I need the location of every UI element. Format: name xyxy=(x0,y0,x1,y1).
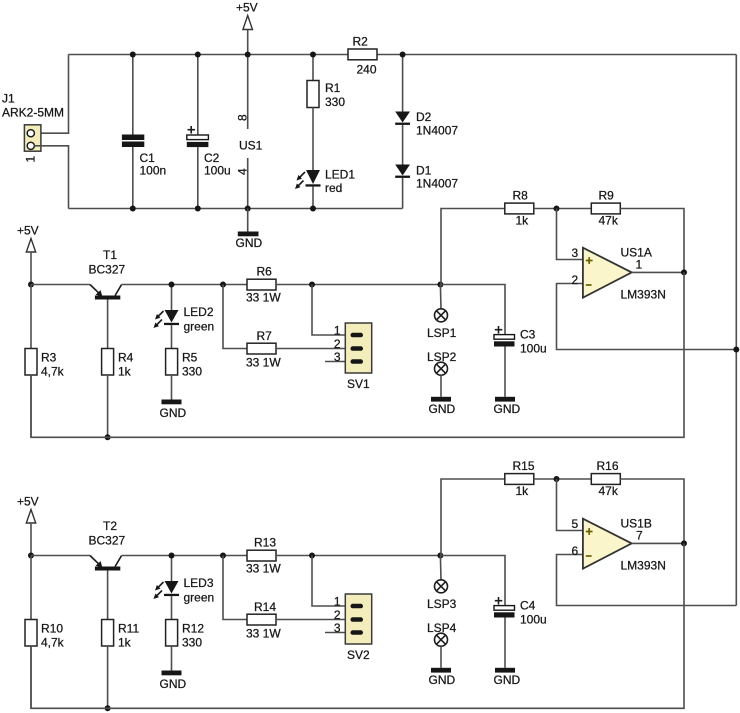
svg-text:J1: J1 xyxy=(2,92,15,106)
svg-text:R4: R4 xyxy=(118,351,134,365)
node dot sense node LSP1 xyxy=(437,282,443,288)
svg-text:3: 3 xyxy=(572,246,579,260)
wire R9 right to output column xyxy=(620,209,684,273)
wire top +5V rail left of R2 xyxy=(69,54,349,56)
svg-text:R14: R14 xyxy=(254,600,276,614)
node dot R15/R16 junction xyxy=(554,476,560,482)
svg-text:3: 3 xyxy=(334,621,341,635)
svg-text:R1: R1 xyxy=(325,81,341,95)
wire +5V to T1 emitter xyxy=(31,284,90,286)
svg-text:R7: R7 xyxy=(257,329,273,343)
connector SV1 xyxy=(334,323,372,391)
connector J1 ARK2-5MM xyxy=(2,92,64,163)
svg-text:LSP3: LSP3 xyxy=(427,597,457,611)
svg-text:ARK2-5MM: ARK2-5MM xyxy=(2,106,64,120)
svg-text:1: 1 xyxy=(24,156,38,163)
svg-text:GND: GND xyxy=(429,402,456,416)
resistor R1 xyxy=(307,55,345,171)
svg-text:8: 8 xyxy=(236,114,250,121)
wire R14 branch down xyxy=(223,556,247,620)
svg-text:BC327: BC327 xyxy=(89,534,126,548)
svg-text:330: 330 xyxy=(182,636,202,650)
ground symbol below US1 xyxy=(236,209,263,251)
capacitor C3 (electrolytic) xyxy=(494,326,547,397)
node dot R8/R9 junction xyxy=(554,206,560,212)
svg-text:1N4007: 1N4007 xyxy=(416,177,458,191)
svg-text:1: 1 xyxy=(334,324,341,338)
svg-text:R6: R6 xyxy=(257,265,273,279)
svg-text:BC327: BC327 xyxy=(89,263,126,277)
svg-text:T2: T2 xyxy=(103,519,117,533)
resistor R8 xyxy=(505,189,534,228)
wire R6 to sense node xyxy=(276,284,440,286)
svg-text:1k: 1k xyxy=(516,484,530,498)
svg-text:green: green xyxy=(184,591,215,605)
LED3 green xyxy=(154,556,215,620)
wire R16 right to output column xyxy=(620,479,684,543)
svg-text:33 1W: 33 1W xyxy=(246,291,281,305)
svg-text:+5V: +5V xyxy=(17,495,39,509)
ground below LSP2 xyxy=(429,397,456,416)
svg-text:SV1: SV1 xyxy=(347,377,370,391)
resistor R16 xyxy=(591,459,620,498)
svg-text:D2: D2 xyxy=(416,110,432,124)
node A ch1 emitter node dot xyxy=(28,282,34,288)
wire - input to reference rail end xyxy=(557,555,737,606)
svg-text:33 1W: 33 1W xyxy=(246,562,281,576)
node dot D2 top rail xyxy=(400,52,406,58)
+5V power symbol (top) xyxy=(236,1,258,55)
svg-text:GND: GND xyxy=(160,406,187,420)
svg-text:C4: C4 xyxy=(520,599,536,613)
resistor R4 xyxy=(102,349,134,438)
wire T1 collector rail xyxy=(122,284,248,286)
wire sense node up to R8 row xyxy=(441,209,505,285)
svg-text:100u: 100u xyxy=(520,613,547,627)
op-amp US1B LM393N xyxy=(572,517,666,573)
svg-text:GND: GND xyxy=(429,673,456,687)
svg-text:T1: T1 xyxy=(103,248,117,262)
svg-text:1k: 1k xyxy=(118,365,132,379)
wire left edge drop to J1 pin 1 xyxy=(34,55,68,134)
wire SV1 pin 3 stub xyxy=(325,361,345,363)
node dot ground rail at US1 xyxy=(245,206,251,212)
svg-text:4,7k: 4,7k xyxy=(41,365,65,379)
resistor R12 xyxy=(166,620,205,671)
wire sense node up to R15 row xyxy=(441,479,505,556)
wire R7 branch down xyxy=(223,285,247,349)
svg-text:3: 3 xyxy=(334,350,341,364)
svg-text:1N4007: 1N4007 xyxy=(416,124,458,138)
wire T2 collector rail xyxy=(122,555,248,557)
node dot LED2 branch xyxy=(169,282,175,288)
svg-text:R15: R15 xyxy=(513,459,535,473)
node dot +5V rail at US1 xyxy=(245,52,251,58)
svg-text:green: green xyxy=(184,320,215,334)
svg-text:US1: US1 xyxy=(239,139,263,153)
resistor R2 xyxy=(348,35,377,77)
svg-text:R16: R16 xyxy=(597,459,619,473)
resistor R5 xyxy=(166,349,203,400)
node dot R14 branch xyxy=(220,553,226,559)
svg-text:R10: R10 xyxy=(41,622,63,636)
resistor R7 xyxy=(246,329,281,370)
ground below R12 xyxy=(160,671,187,692)
resistor R15 xyxy=(505,459,535,498)
wire J1 pin 2 to ground rail xyxy=(34,146,68,209)
wire SV2 pin 3 stub xyxy=(325,632,345,634)
+5V power symbol (channel 1) xyxy=(17,224,39,285)
svg-text:33 1W: 33 1W xyxy=(246,627,281,641)
svg-text:47k: 47k xyxy=(599,214,619,228)
diode D1 1N4007 xyxy=(395,164,458,209)
node dot C2 ground rail xyxy=(195,206,201,212)
ground below C3 xyxy=(494,397,521,416)
LED1 red xyxy=(295,168,355,209)
node dot R7 branch xyxy=(220,282,226,288)
node dot R11 output rail xyxy=(105,705,111,711)
wire R8 to junction xyxy=(534,208,592,210)
svg-text:2: 2 xyxy=(572,273,579,287)
node dot C1 ground rail xyxy=(130,206,136,212)
node dot SV1 pin1 branch xyxy=(309,282,315,288)
solder pad LSP4 xyxy=(427,621,457,668)
node dot LED1 ground rail xyxy=(310,206,316,212)
svg-text:100u: 100u xyxy=(520,342,547,356)
svg-text:R8: R8 xyxy=(513,189,529,203)
svg-text:5: 5 xyxy=(572,517,579,531)
wire R15 to junction xyxy=(534,478,592,480)
solder pad LSP1 xyxy=(427,285,457,341)
svg-text:R13: R13 xyxy=(254,536,276,550)
ground below LSP4 xyxy=(429,668,456,687)
capacitor C1 xyxy=(122,55,166,209)
resistor R6 xyxy=(246,265,281,305)
svg-text:red: red xyxy=(325,181,342,195)
svg-text:R11: R11 xyxy=(118,622,139,636)
svg-text:240: 240 xyxy=(357,63,377,77)
svg-text:330: 330 xyxy=(182,365,202,379)
svg-text:R3: R3 xyxy=(41,351,57,365)
node dot US1A output xyxy=(681,269,687,275)
svg-text:GND: GND xyxy=(236,236,263,250)
wire output column down and output rail ch1 xyxy=(31,272,684,437)
svg-text:1k: 1k xyxy=(118,636,132,650)
svg-text:LSP1: LSP1 xyxy=(427,326,457,340)
transistor T1 BC327 xyxy=(89,248,126,349)
svg-text:D1: D1 xyxy=(416,164,432,178)
wire US1A output xyxy=(632,271,684,273)
ground below C4 xyxy=(494,668,521,687)
wire to SV1 pin 1 xyxy=(312,285,345,336)
wire R13 to sense node xyxy=(276,555,440,557)
svg-text:4,7k: 4,7k xyxy=(41,636,65,650)
svg-text:47k: 47k xyxy=(599,484,619,498)
wire sense node to C3 corner xyxy=(440,285,505,335)
svg-text:1: 1 xyxy=(334,595,341,609)
wire top rail right of R2 to right edge xyxy=(377,54,736,56)
svg-text:+5V: +5V xyxy=(236,1,258,15)
svg-text:R9: R9 xyxy=(599,189,615,203)
resistor R9 xyxy=(591,189,620,228)
svg-text:R2: R2 xyxy=(353,35,369,49)
svg-text:1k: 1k xyxy=(516,214,530,228)
node dot SV2 pin1 branch xyxy=(309,553,315,559)
svg-text:33 1W: 33 1W xyxy=(246,356,281,370)
op-amp US1 power pins (pin 8 / pin 4) xyxy=(236,55,263,209)
node dot C1 top rail xyxy=(130,52,136,58)
svg-text:GND: GND xyxy=(494,673,521,687)
diode D2 1N4007 xyxy=(395,55,458,165)
node dot R4 output rail xyxy=(105,434,111,440)
svg-text:2: 2 xyxy=(334,337,341,351)
svg-text:LED2: LED2 xyxy=(184,305,214,319)
connector SV2 xyxy=(334,594,372,662)
capacitor C2 (electrolytic) xyxy=(187,55,231,209)
svg-text:GND: GND xyxy=(494,402,521,416)
op-amp US1A LM393N xyxy=(572,246,666,302)
ground below R5 xyxy=(160,400,187,421)
wire junction down to + input xyxy=(557,479,583,531)
svg-text:100n: 100n xyxy=(140,164,167,178)
node dot LED3 branch xyxy=(169,553,175,559)
svg-text:R5: R5 xyxy=(182,351,198,365)
svg-text:1: 1 xyxy=(636,258,643,272)
svg-text:GND: GND xyxy=(160,677,187,691)
wire US1B output xyxy=(632,542,684,544)
svg-text:+5V: +5V xyxy=(17,224,39,238)
svg-text:LED1: LED1 xyxy=(325,168,355,182)
node dot reference rail ch1 xyxy=(733,347,739,353)
wire ground rail (top section) xyxy=(69,208,403,210)
resistor R11 xyxy=(102,620,140,709)
svg-text:C3: C3 xyxy=(520,328,536,342)
LED2 green xyxy=(154,285,215,349)
+5V power symbol (channel 2) xyxy=(17,495,39,556)
svg-text:100u: 100u xyxy=(204,164,231,178)
solder pad LSP3 xyxy=(427,556,457,612)
wire output column down and output rail ch2 xyxy=(31,543,684,708)
svg-text:2: 2 xyxy=(334,608,341,622)
wire +5V to T2 emitter xyxy=(31,555,90,557)
svg-text:6: 6 xyxy=(572,544,579,558)
resistor R3 xyxy=(25,285,65,438)
svg-text:LM393N: LM393N xyxy=(621,288,666,302)
svg-text:330: 330 xyxy=(325,95,345,109)
node dot ch2 emitter node xyxy=(28,553,34,559)
wire junction down to + input xyxy=(557,209,583,260)
transistor T2 BC327 xyxy=(89,519,126,620)
svg-text:R12: R12 xyxy=(182,622,204,636)
svg-text:7: 7 xyxy=(636,529,643,543)
wire sense node to C4 corner xyxy=(440,556,505,606)
resistor R13 xyxy=(246,536,281,576)
svg-text:LM393N: LM393N xyxy=(621,559,666,573)
wire R14 to SV2 pin 2 xyxy=(276,619,345,621)
svg-text:LED3: LED3 xyxy=(184,576,214,590)
node dot R1 top rail xyxy=(310,52,316,58)
node dot C2 top rail xyxy=(195,52,201,58)
node dot sense node LSP3 xyxy=(437,553,443,559)
svg-text:4: 4 xyxy=(236,168,250,175)
solder pad LSP2 xyxy=(427,350,457,397)
resistor R14 xyxy=(246,600,281,641)
wire - input to reference rail xyxy=(557,284,737,350)
wire R7 to SV1 pin 2 xyxy=(276,348,345,350)
wire to SV2 pin 1 xyxy=(312,556,345,607)
resistor R10 xyxy=(25,556,65,709)
svg-text:SV2: SV2 xyxy=(347,648,370,662)
wire right edge reference rail (down from top rail) xyxy=(735,55,737,606)
capacitor C4 (electrolytic) xyxy=(494,597,547,668)
node dot US1B output xyxy=(681,540,687,546)
